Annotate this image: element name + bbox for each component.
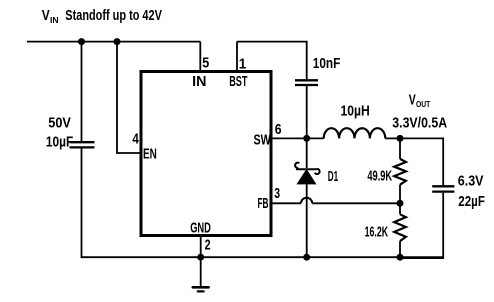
wire C1 bottom: [81, 149, 83, 259]
wire FB hop over D1: [301, 198, 312, 204]
svg-text:GND: GND: [190, 221, 211, 237]
wire ground rail: [82, 256, 444, 258]
wire L1 to VOUT node: [385, 137, 400, 139]
wire VOUT node to R1: [399, 138, 401, 159]
pin 2 GND: [190, 221, 211, 259]
junction VIN / EN: [114, 38, 121, 45]
wire D1 to rail: [306, 184, 308, 258]
junction FB node: [397, 200, 404, 207]
wire C3 bottom: [400, 193, 443, 258]
diode D1 schottky: [295, 163, 319, 184]
wire R1 to FB node: [399, 185, 401, 204]
capacitor C2 10nF: [295, 55, 340, 85]
ground: [193, 257, 209, 291]
pin 6 SW: [254, 122, 307, 148]
capacitor C3 plates: [432, 186, 454, 191]
wire FB to divider: [312, 202, 400, 204]
wire SW node to D1: [306, 138, 308, 168]
junction VOUT node: [397, 135, 404, 142]
wire C1 top: [81, 42, 83, 141]
svg-text:22µF: 22µF: [458, 193, 485, 210]
resistor R1 49.9K: [367, 159, 406, 185]
capacitor C3 value labels 6.3V 22uF: [458, 173, 485, 210]
wire VIN rail: [27, 41, 200, 43]
pin 5 IN: [192, 42, 209, 90]
wire BST to C2: [237, 42, 307, 80]
wire C2 to SW node: [306, 86, 308, 138]
pin 4 EN labels: [132, 132, 156, 163]
inductor L1: [324, 128, 386, 138]
pin 1 BST: [229, 42, 247, 90]
junction VIN / C1: [78, 38, 85, 45]
junction R2 rail: [397, 254, 404, 261]
svg-text:OUT: OUT: [416, 99, 431, 109]
svg-text:4: 4: [132, 132, 139, 148]
wire R2 to rail: [399, 241, 401, 258]
svg-text:3: 3: [274, 186, 280, 202]
svg-text:10nF: 10nF: [313, 55, 341, 72]
svg-text:10µH: 10µH: [341, 103, 370, 120]
svg-text:V: V: [409, 93, 416, 109]
wire EN branch: [117, 42, 140, 153]
IC U1 body: [141, 72, 271, 236]
svg-text:FB: FB: [258, 196, 269, 212]
capacitor C1 value labels 50V 10uF: [46, 114, 73, 150]
junction SW node: [303, 135, 310, 142]
junction GND rail: [197, 254, 204, 261]
svg-text:D1: D1: [328, 169, 338, 185]
svg-text:BST: BST: [229, 74, 247, 90]
svg-text:Standoff up to 42V: Standoff up to 42V: [65, 8, 162, 24]
wire VOUT to C3: [400, 138, 443, 185]
svg-text:IN: IN: [50, 15, 59, 25]
wire SW node to L1: [307, 137, 324, 139]
junction D1 rail: [303, 254, 310, 261]
svg-text:IN: IN: [192, 74, 206, 90]
resistor R2 16.2K: [365, 214, 406, 241]
svg-text:6.3V: 6.3V: [458, 173, 484, 190]
pin 3 FB: [258, 186, 302, 212]
svg-text:SW: SW: [254, 132, 271, 148]
capacitor C1 plates: [70, 142, 95, 147]
svg-text:16.2K: 16.2K: [365, 223, 389, 240]
net label VIN: [42, 8, 162, 25]
svg-text:1: 1: [239, 57, 247, 73]
svg-text:6: 6: [275, 122, 282, 138]
svg-text:5: 5: [202, 56, 209, 72]
svg-text:49.9K: 49.9K: [367, 167, 392, 184]
svg-text:V: V: [42, 8, 50, 24]
svg-text:2: 2: [205, 238, 211, 254]
svg-text:3.3V/0.5A: 3.3V/0.5A: [392, 115, 447, 132]
net label VOUT 3.3V/0.5A: [392, 93, 447, 132]
svg-text:10µF: 10µF: [46, 134, 73, 151]
svg-text:EN: EN: [143, 146, 157, 162]
svg-text:50V: 50V: [48, 114, 71, 131]
wire FB node to R2: [399, 203, 401, 214]
